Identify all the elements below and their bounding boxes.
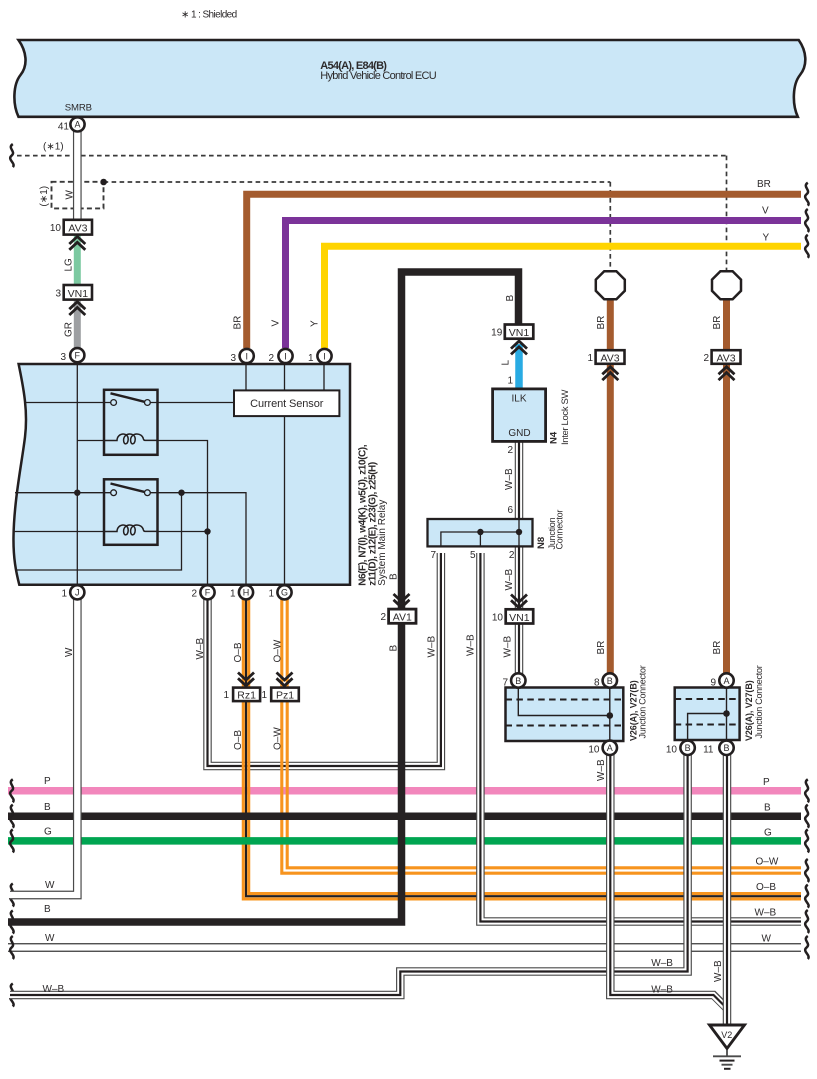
continuation mark B bus right <box>805 805 808 828</box>
wire B thick: VN1-19 up, across, down through AV1 to B row left <box>8 272 519 922</box>
connector box 2 AV1 <box>389 609 416 623</box>
svg-text:BR: BR <box>712 316 723 330</box>
svg-text:10: 10 <box>492 612 504 623</box>
svg-text:I: I <box>284 351 287 361</box>
V26 internal dashed rows <box>506 700 624 726</box>
svg-text:(∗1): (∗1) <box>39 186 50 207</box>
svg-text:O–B: O–B <box>233 730 244 750</box>
G bus green <box>8 837 801 845</box>
connector box 19 VN1 <box>505 325 534 339</box>
relay block internal: branch from relay2 switch down and left to edge <box>17 493 182 570</box>
W bus full width double line <box>8 943 801 952</box>
svg-text:LG: LG <box>64 258 75 272</box>
svg-text:I: I <box>245 351 248 361</box>
wire W-B from relay pin F2 down, right, up to N8 pin 7 <box>208 551 441 766</box>
svg-text:H: H <box>243 588 250 598</box>
wire O-B from relay pin H through Rz1 to O-B row <box>243 600 801 899</box>
current sensor box <box>234 390 339 416</box>
continuation mark B bus left <box>10 805 13 828</box>
connector box 1 Pz1 <box>271 688 299 702</box>
relay block internal: wire from left edge to relay1 switch <box>24 402 111 404</box>
svg-text:O–B: O–B <box>233 642 244 662</box>
relay pin 2 I top <box>278 349 292 363</box>
squiggle at left of shield line 1 <box>10 144 13 167</box>
continuation mark O-W row right <box>805 859 808 882</box>
svg-text:1: 1 <box>507 376 513 387</box>
octagon shield symbol 1 <box>596 271 625 299</box>
svg-text:F: F <box>205 588 211 598</box>
svg-text:B: B <box>764 803 771 814</box>
continuation mark G bus left <box>10 829 13 852</box>
svg-text:8: 8 <box>594 678 600 689</box>
wire W-B from VN1-10 to V26 pin 7B <box>515 624 524 675</box>
svg-text:F: F <box>75 351 81 361</box>
svg-text:2: 2 <box>703 353 709 364</box>
svg-text:W–B: W–B <box>466 634 477 656</box>
continuation mark P bus left <box>10 779 13 802</box>
junction dot relay2 switch branch <box>178 490 184 496</box>
svg-text:A: A <box>607 743 613 753</box>
V26 pin 10 A <box>603 741 617 755</box>
relay block internal: left edge to relay2 switch <box>15 492 111 494</box>
svg-text:N4: N4 <box>549 431 560 444</box>
N8 junction dots <box>477 529 483 535</box>
ECU A54(A) E84(B) Hybrid Vehicle Control ECU block <box>14 40 805 117</box>
relay block internal: relay2 switch to pin H vertical <box>150 493 246 585</box>
V26 pin 8 B <box>603 673 617 687</box>
relay 1 switch contact circles <box>111 400 117 406</box>
svg-text:B: B <box>515 676 521 686</box>
dashed shield vertical to octagon 1 <box>609 182 611 270</box>
continuation mark O-B row right <box>805 885 808 908</box>
svg-text:I: I <box>323 351 326 361</box>
ILK Inter Lock SW block N4 <box>493 389 546 442</box>
svg-text:B: B <box>685 743 691 753</box>
svg-text:BR: BR <box>596 316 607 330</box>
svg-text:O–W: O–W <box>756 856 779 867</box>
wire O-W from relay pin G through Pz1 to O-W row <box>282 600 801 874</box>
svg-text:W: W <box>45 880 55 891</box>
svg-text:ILK: ILK <box>511 394 526 405</box>
svg-text:Y: Y <box>310 320 321 327</box>
relay 2 (lower) box <box>104 479 158 545</box>
wire LG between AV3 and VN1 <box>74 235 81 285</box>
continuation mark Y bus right <box>805 235 808 258</box>
svg-text:V26(A), V27(B): V26(A), V27(B) <box>744 680 754 741</box>
svg-text:1: 1 <box>230 589 236 600</box>
svg-text:G: G <box>281 588 288 598</box>
svg-text:Junction Connector: Junction Connector <box>638 665 648 738</box>
svg-text:BR: BR <box>233 316 244 330</box>
continuation mark W bus left <box>10 936 13 959</box>
V27 pin 9 A <box>719 673 733 687</box>
svg-text:B: B <box>44 904 51 915</box>
svg-text:1: 1 <box>268 589 274 600</box>
V27 pin 10 B <box>680 741 694 755</box>
connector box 1 AV3 right <box>596 350 625 364</box>
chevron down above AV1 <box>394 594 410 607</box>
svg-text:2: 2 <box>507 445 513 456</box>
continuation mark V bus right <box>805 209 808 232</box>
V27 junction dot <box>723 710 730 717</box>
svg-text:B: B <box>723 743 729 753</box>
wire V bus from right to relay pin 2I <box>286 221 802 349</box>
wire W-B from ILK GND to N8 pin 6 <box>515 442 524 520</box>
svg-text:AV3: AV3 <box>68 223 87 235</box>
relay pin 1 I top <box>317 349 331 363</box>
chevron up below VN1-3 <box>69 302 85 315</box>
svg-text:B: B <box>44 802 51 813</box>
svg-text:1: 1 <box>308 353 314 364</box>
svg-text:O–W: O–W <box>273 639 284 662</box>
connector box 10 AV3 <box>64 220 92 235</box>
continuation mark G bus right <box>805 829 808 852</box>
relay block internal: relay2 coil to F2 junction <box>158 531 208 533</box>
svg-text:W–B: W–B <box>43 984 65 995</box>
svg-text:P: P <box>763 777 770 788</box>
svg-text:System Main Relay: System Main Relay <box>377 500 388 586</box>
svg-text:Connector: Connector <box>555 510 565 550</box>
svg-text:A: A <box>74 120 80 130</box>
wire W-B left bus with step up to V27 pin 10B <box>8 752 688 995</box>
relay 2 switch blade <box>111 484 146 493</box>
connector box 3 VN1 <box>64 285 92 300</box>
svg-text:V: V <box>762 206 769 217</box>
svg-text:1: 1 <box>587 353 593 364</box>
relay block internal: relay1 coil to pin F2 vertical <box>158 441 208 585</box>
svg-text:GND: GND <box>508 428 530 439</box>
chevron down above Rz1 <box>238 673 254 686</box>
svg-text:A: A <box>723 676 729 686</box>
svg-text:3: 3 <box>230 353 236 364</box>
svg-text:W: W <box>45 933 55 944</box>
relay pin 1 G bottom <box>277 585 291 599</box>
svg-text:W: W <box>64 647 75 657</box>
svg-text:Junction Connector: Junction Connector <box>754 665 764 738</box>
chevron down above VN1-10 <box>511 595 527 608</box>
svg-text:Current Sensor: Current Sensor <box>250 398 324 410</box>
svg-text:W–B: W–B <box>596 759 607 781</box>
junction dot relay2 coil / F2 <box>204 528 210 534</box>
svg-text:5: 5 <box>470 550 476 561</box>
svg-text:1: 1 <box>61 589 67 600</box>
svg-text:1: 1 <box>223 690 229 701</box>
svg-text:Hybrid Vehicle Control ECU: Hybrid Vehicle Control ECU <box>320 70 436 82</box>
wire W from relay pin J down to W row, left to edge <box>8 599 77 896</box>
svg-text:O–B: O–B <box>756 882 776 893</box>
svg-text:W–B: W–B <box>713 960 724 982</box>
svg-text:B: B <box>389 645 400 652</box>
chevron up below AV3-10 <box>69 237 85 250</box>
relay pin 3 F top <box>70 348 84 362</box>
svg-text:W–B: W–B <box>504 569 515 591</box>
svg-text:7: 7 <box>502 678 508 689</box>
svg-text:10: 10 <box>588 744 600 755</box>
svg-text:10: 10 <box>50 223 62 234</box>
relay 1 (upper) box <box>104 390 158 455</box>
V27 internal dashed rows <box>675 699 740 725</box>
dashed shield line 2 <box>104 181 611 183</box>
svg-text:N8: N8 <box>536 537 547 549</box>
relay pin 1 H bottom <box>239 585 253 599</box>
dashed shield vertical to octagon 2 <box>726 156 728 270</box>
svg-text:AV3: AV3 <box>601 352 620 364</box>
relay 2 switch contact circles <box>111 490 117 496</box>
svg-text:W–B: W–B <box>651 958 673 969</box>
svg-text:V: V <box>271 320 282 327</box>
wire BR octagon2 to AV3-2 <box>723 299 730 351</box>
svg-text:VN1: VN1 <box>509 327 530 339</box>
svg-text:2: 2 <box>191 589 197 600</box>
svg-text:19: 19 <box>491 328 503 339</box>
svg-text:2: 2 <box>509 550 515 561</box>
V2 ground symbol <box>710 1025 745 1049</box>
relay 1 coil <box>104 434 158 444</box>
svg-text:BR: BR <box>712 641 723 655</box>
relay block internal: branch F to relay1 coil <box>77 440 104 442</box>
continuation mark W bus right <box>805 936 808 959</box>
svg-text:W–B: W–B <box>651 984 673 995</box>
relay block internal: current sensor to pin G vertical <box>284 416 286 585</box>
wire BR AV3-1 to V26 pin 8B <box>607 365 614 674</box>
dashed shield box around W wire <box>52 182 104 209</box>
svg-text:∗ 1 : Shielded: ∗ 1 : Shielded <box>181 9 237 20</box>
svg-text:BR: BR <box>596 641 607 655</box>
svg-text:Y: Y <box>763 232 770 243</box>
N8 junction connector block <box>428 519 533 546</box>
wire BR octagon1 to AV3-1 <box>607 299 614 351</box>
continuation mark B2 row left <box>10 911 13 934</box>
P bus pink <box>8 787 801 795</box>
V27 junction connector block <box>675 688 740 741</box>
continuation mark W-B row left <box>10 984 13 1007</box>
relay pin 1 J bottom <box>70 585 84 599</box>
wire W from ECU pin A to AV3 <box>73 130 82 220</box>
svg-text:BR: BR <box>757 179 771 190</box>
svg-text:11: 11 <box>703 744 714 755</box>
svg-text:J: J <box>75 588 80 598</box>
connector box 10 VN1 <box>506 609 534 623</box>
svg-text:2: 2 <box>380 612 386 623</box>
continuation mark W-B row right <box>805 910 808 933</box>
wire GR between VN1 and relay pin F <box>74 300 81 348</box>
svg-text:O–W: O–W <box>273 727 284 750</box>
wire W-B from N8 pin 2 to VN1-10 <box>515 547 524 610</box>
wire Y bus from right to relay pin 1I <box>325 246 802 348</box>
svg-text:W–B: W–B <box>427 636 438 658</box>
svg-text:6: 6 <box>507 505 513 516</box>
svg-text:G: G <box>764 827 772 838</box>
junction dot on shield box corner <box>100 179 107 186</box>
svg-text:SMRB: SMRB <box>65 103 92 114</box>
svg-text:AV1: AV1 <box>393 612 412 624</box>
wire L between VN1-19 and ILK <box>515 344 523 389</box>
junction dot relay J / relay2 switch <box>74 490 80 496</box>
svg-text:P: P <box>44 776 51 787</box>
connector box 2 AV3 right <box>712 350 741 364</box>
svg-text:VN1: VN1 <box>68 288 89 300</box>
chevron up below AV3-2 <box>719 367 735 380</box>
chevron up below AV3-1 <box>602 367 618 380</box>
wire W-B from N8 pin 5 down to W-B row right <box>480 551 801 922</box>
svg-text:1: 1 <box>261 690 267 701</box>
svg-text:L: L <box>501 360 512 366</box>
wire W-B from V26 pin 10A down, right, diagonal to V2 drop <box>610 752 727 1009</box>
relay block internal: wire relay1 switch to current sensor <box>150 402 234 404</box>
relay 1 switch blade <box>111 393 146 402</box>
relay block internal: pins I to current sensor verticals <box>246 364 324 390</box>
V26 internal wiring <box>518 681 610 748</box>
relay pin 3 I top <box>240 349 254 363</box>
System Main Relay block body <box>13 364 350 585</box>
wire BR AV3-2 to V27 pin 9A <box>723 365 730 674</box>
continuation mark BR bus right <box>805 183 808 206</box>
svg-text:3: 3 <box>55 288 61 299</box>
svg-text:W–B: W–B <box>503 636 514 658</box>
svg-text:W–B: W–B <box>504 468 515 490</box>
connector box 1 Rz1 <box>233 688 260 702</box>
V26 junction connector block <box>506 688 624 742</box>
V27 internal wiring <box>688 681 727 748</box>
svg-text:AV3: AV3 <box>717 352 736 364</box>
continuation mark P bus right <box>805 779 808 802</box>
relay pin 2 F bottom <box>200 585 214 599</box>
svg-text:B: B <box>607 676 613 686</box>
svg-text:W–B: W–B <box>755 907 777 918</box>
svg-text:B: B <box>389 573 400 580</box>
dashed shield line 1 <box>17 155 727 157</box>
relay block internal: pin F / pin J vertical <box>76 364 78 585</box>
wire BR bus from right to relay pin 3I <box>247 194 801 348</box>
svg-text:(∗1): (∗1) <box>43 142 64 153</box>
V26 junction dot <box>607 712 614 719</box>
svg-text:7: 7 <box>431 550 437 561</box>
svg-text:Rz1: Rz1 <box>237 690 256 702</box>
svg-text:9: 9 <box>710 678 716 689</box>
N8 internal wiring <box>441 519 519 546</box>
svg-text:2: 2 <box>268 353 274 364</box>
chevron up below VN1-19 <box>511 341 527 354</box>
svg-text:B: B <box>505 295 516 302</box>
svg-text:3: 3 <box>60 352 66 363</box>
relay 2 coil <box>104 525 158 535</box>
svg-text:10: 10 <box>666 744 678 755</box>
chevron down above Pz1 <box>277 673 293 686</box>
svg-text:W–B: W–B <box>195 638 206 660</box>
svg-text:GR: GR <box>64 322 75 337</box>
V26 pin 7 B <box>511 673 525 687</box>
V27 pin 11 B <box>719 741 733 755</box>
B bus black upper <box>8 812 801 820</box>
continuation mark W row left <box>10 884 13 907</box>
ECU pin 41 A <box>70 117 84 131</box>
relay block internal: left edge to relay2 coil <box>14 531 104 533</box>
svg-text:W: W <box>762 933 772 944</box>
svg-text:41: 41 <box>58 121 70 132</box>
svg-text:Pz1: Pz1 <box>276 690 294 702</box>
octagon shield symbol 2 <box>712 271 741 299</box>
svg-text:Inter Lock SW: Inter Lock SW <box>560 390 571 445</box>
wire W-B from V27 pin 11B down to V2 ground <box>723 752 732 1025</box>
svg-text:V2: V2 <box>721 1030 732 1040</box>
svg-text:VN1: VN1 <box>509 612 530 624</box>
svg-text:G: G <box>44 826 52 837</box>
